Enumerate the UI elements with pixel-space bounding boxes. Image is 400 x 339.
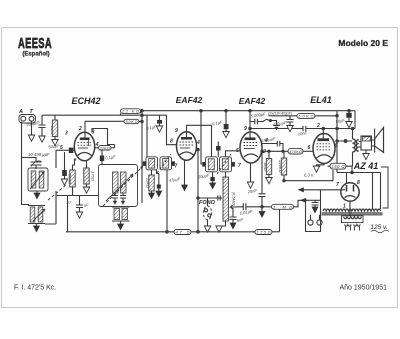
resistor 1M vertical (268, 151, 270, 158)
ECH42 cathode (78, 153, 92, 156)
svg-text:EL41: EL41 (310, 95, 332, 105)
svg-text:AEESA: AEESA (18, 35, 52, 52)
svg-text:(Español): (Español) (22, 52, 49, 58)
wire y115 segment (142, 114, 167, 116)
bus decoupling cap block (348, 111, 350, 113)
tube AZ41 envelope (341, 183, 359, 201)
osc trimmer caps (112, 193, 118, 201)
screen feed wire (114, 145, 116, 148)
EL41 anode lead (322, 129, 324, 139)
pot wiper arrow (231, 205, 237, 209)
IFT1 left trim cap (143, 161, 146, 166)
trimmer arrow coil 2 (33, 209, 45, 221)
wiper 5nF cap to ground (230, 208, 237, 223)
wire bus to IFT2 left trim (201, 111, 202, 164)
svg-text:(0,5MΩ): (0,5MΩ) (232, 192, 237, 207)
output transformer secondary (356, 140, 359, 151)
ground under osc coil (118, 224, 124, 230)
capacitor antenna series (39, 115, 46, 136)
AZ41 anodes (347, 185, 354, 192)
grid resistor box 1M (272, 204, 294, 209)
ECH42 pin8 link line (92, 129, 115, 145)
speaker leads (359, 142, 361, 148)
mains verticals (306, 190, 321, 232)
OT to EL41 link (337, 140, 352, 142)
coupling line y128.5 (250, 128, 303, 130)
OT leads (352, 129, 354, 167)
gang dashed line left (48, 185, 66, 200)
wire top bus main (141, 110, 356, 112)
IFT2 left trim cap (202, 162, 205, 167)
speaker cone (374, 129, 376, 153)
antenna coil secondary (39, 171, 44, 188)
bottom bus (66, 231, 174, 233)
IFT1 secondary bottom to bus (166, 170, 168, 232)
svg-text:22KΩ: 22KΩ (146, 177, 151, 188)
FONO jack (198, 198, 222, 206)
tube EAF42 second envelope (240, 132, 262, 163)
wire bus drop at 355 to output transformer (354, 111, 356, 129)
tube EAF42 first envelope (177, 132, 197, 161)
svg-text:2: 2 (78, 126, 82, 132)
cathode resistor 150 box (330, 163, 346, 169)
tone cap line y121 (250, 119, 270, 124)
antenna coil primary (31, 171, 36, 188)
EAF42-1 cathode (180, 152, 194, 155)
feed line to 50k (85, 120, 124, 122)
EAF42-1 anode plate (181, 137, 192, 140)
ground under antenna cap (39, 136, 45, 142)
wire top antenna rail (42, 114, 142, 116)
resistor 50k (124, 119, 139, 123)
cathode resistor (86, 161, 88, 168)
EAF42-2 grids (244, 143, 259, 146)
grid block cap x218 (217, 142, 219, 147)
IFT1 block cap to ground (157, 170, 159, 185)
EAF42-1 cathode ground (184, 160, 186, 185)
heater rail arrow (299, 188, 304, 192)
IFT2 sec bottom cap to ground (212, 172, 214, 177)
antenna terminal plate (19, 115, 36, 124)
EL41 anode plate (318, 138, 330, 141)
ECH42 internal g4 (88, 139, 90, 146)
screen rail y116 EL41 (269, 115, 298, 117)
trimmer arrow antenna coil (30, 172, 45, 190)
diode load line y151.3 (262, 150, 289, 152)
filament windings (345, 225, 361, 227)
svg-text:50KΩ: 50KΩ (126, 119, 138, 124)
svg-text:47: 47 (67, 200, 72, 205)
resistor bus 22k (121, 109, 141, 114)
osc coil 2 (121, 172, 127, 193)
svg-text:7: 7 (175, 164, 178, 170)
AZ41 leads (349, 201, 351, 216)
power transformer HV secondary (344, 217, 362, 219)
EAF42-2 anode plate (245, 138, 256, 141)
svg-text:150 Ω: 150 Ω (332, 164, 346, 169)
power transformer core (322, 213, 383, 215)
svg-text:Modelo 20 E: Modelo 20 E (338, 38, 388, 48)
svg-text:5: 5 (335, 143, 338, 149)
bus resistor 1 (174, 230, 191, 235)
svg-text:220KΩ: 220KΩ (278, 159, 283, 172)
IFT1 primary box (146, 157, 158, 170)
padder trimmer vertical (45, 150, 56, 224)
EAF42-1 anode lead to IFT2 (187, 125, 212, 157)
volume pot lead (225, 172, 227, 177)
ECH42 anode lead (84, 121, 86, 137)
wire antenna A down (22, 122, 30, 205)
fono series cap (218, 196, 220, 201)
svg-text:3: 3 (65, 131, 68, 137)
antenna tuning variable capacitor (31, 157, 42, 169)
wire T down (31, 122, 33, 136)
decoupling cap x226 (225, 111, 227, 124)
svg-text:Año 1950/1951: Año 1950/1951 (340, 285, 388, 292)
EAF42-2 cathode (244, 154, 258, 157)
IFT2 tuning dashed arrow (217, 154, 231, 174)
wire bus drop at 337 (336, 111, 338, 173)
tube EL41 envelope (313, 134, 335, 164)
IFT2 primary box (206, 157, 218, 172)
gang dashed line osc (103, 166, 143, 206)
oscillator coil box (99, 165, 138, 207)
resistor 220k vertical (283, 151, 285, 158)
svg-text:EAF42: EAF42 (239, 96, 266, 106)
trimmer arrow osc coil (106, 174, 133, 201)
wire A to variable cap top (22, 157, 37, 159)
ECH42 anode plate (80, 138, 90, 141)
wire vertical x142 (141, 111, 143, 203)
tube ECH42 envelope (74, 132, 94, 161)
EL41 cathode wire to ground (317, 164, 325, 167)
svg-text:F. I. 472'5 Kc.: F. I. 472'5 Kc. (14, 285, 56, 292)
screen rail cap (287, 116, 294, 126)
svg-text:6,3 v.: 6,3 v. (304, 173, 314, 178)
AZ41 cathode (345, 196, 356, 198)
IFT1 primary bottom resistor (151, 170, 153, 175)
IFT2 right trim cap (232, 162, 235, 167)
EL41 cathode (317, 155, 332, 158)
terminal A (21, 116, 26, 121)
svg-text:1MΩ: 1MΩ (263, 162, 268, 171)
HV leads to AZ41 (337, 173, 381, 184)
ground under resistor (52, 140, 58, 146)
grid stopper 470k to EL41 (288, 149, 303, 154)
ECH42 grids (78, 142, 92, 145)
volume potentiometer (223, 177, 228, 221)
speaker ground (365, 150, 367, 154)
svg-text:7: 7 (238, 163, 241, 169)
EAF42-2 cathode line (250, 163, 252, 182)
diode line y143.5 (262, 141, 284, 152)
heater rail (304, 189, 346, 191)
osc grid resistor (73, 159, 75, 171)
IFT2 secondary top to grid (226, 151, 241, 157)
mains circuit top (306, 199, 321, 201)
svg-text:125Ω: 125Ω (257, 230, 271, 235)
osc coil 1 (113, 172, 119, 193)
svg-text:4: 4 (196, 140, 200, 146)
svg-text:22 KΩ: 22 KΩ (121, 109, 139, 114)
cathode cap to ground (64, 152, 66, 170)
screen cap block (101, 150, 103, 156)
ground under coil 2 (34, 226, 40, 232)
wave band coil 2 (30, 207, 35, 222)
osc grid line with grid capacitor (56, 149, 69, 151)
svg-text:470KΩ: 470KΩ (289, 149, 302, 154)
AVC rail (56, 195, 99, 197)
svg-text:2: 2 (316, 123, 320, 129)
feedback rail y180.7 (284, 170, 333, 181)
ground under antenna coil (36, 191, 38, 193)
svg-text:170Ω: 170Ω (91, 171, 96, 181)
mains switch arrow (301, 199, 306, 203)
IFT1 secondary box (160, 157, 172, 170)
screen resistor 50k box (297, 113, 315, 118)
ground under cap (156, 126, 162, 132)
svg-text:A: A (18, 109, 23, 115)
antenna coil box (28, 168, 48, 191)
svg-text:8: 8 (170, 139, 173, 145)
svg-text:10-490 µµF: 10-490 µµF (28, 152, 50, 157)
svg-text:ECH42: ECH42 (71, 96, 100, 106)
wire IFT1 primary top lead (146, 115, 148, 157)
svg-text:6: 6 (308, 145, 311, 151)
speaker frame (361, 136, 372, 150)
svg-text:50KΩ: 50KΩ (68, 174, 73, 184)
AF takeoff cap x262 (261, 151, 263, 193)
AVC filter cap (76, 196, 83, 213)
IFT1 right trim cap (172, 161, 175, 166)
svg-text:8: 8 (92, 130, 95, 136)
svg-text:5: 5 (236, 148, 239, 154)
capacitor block x159.5 (159, 115, 161, 120)
svg-text:EAF42: EAF42 (176, 95, 203, 105)
svg-text:AZ 41: AZ 41 (353, 161, 379, 171)
EAF42-2 anode lead (249, 111, 251, 138)
mains filter cap to ground (312, 200, 319, 207)
EL41 grids (317, 144, 332, 150)
svg-text:9: 9 (175, 128, 178, 134)
osc coil reaction (114, 209, 120, 220)
mains plug circle 2 (317, 220, 322, 225)
svg-text:9: 9 (244, 126, 247, 132)
screen resistor 22k (95, 147, 99, 149)
svg-text:22KΩ: 22KΩ (99, 146, 110, 150)
mains plug circle 1 (308, 220, 313, 225)
wire top bus step (121, 111, 141, 116)
svg-text:8: 8 (357, 180, 360, 186)
EAF42-1 diode line down (197, 150, 199, 232)
power transformer primary winding (323, 209, 381, 211)
EAF42-1 grids (180, 142, 194, 145)
wire to EAF42-1 grid (167, 115, 178, 145)
terminal T (29, 116, 34, 121)
bus resistor 2 (255, 230, 272, 235)
output transformer primary coil (353, 139, 356, 152)
speaker return bracket (381, 167, 388, 208)
ground under T (28, 135, 34, 141)
svg-text:(2x(18+40)pF): (2x(18+40)pF) (268, 112, 293, 116)
IFT1 tuning dashed arrow (157, 154, 171, 173)
resistor antenna shunt (54, 115, 56, 120)
coupling cap y207 line (237, 203, 272, 210)
svg-text:7: 7 (336, 182, 339, 188)
IFT2 secondary box (220, 157, 232, 172)
